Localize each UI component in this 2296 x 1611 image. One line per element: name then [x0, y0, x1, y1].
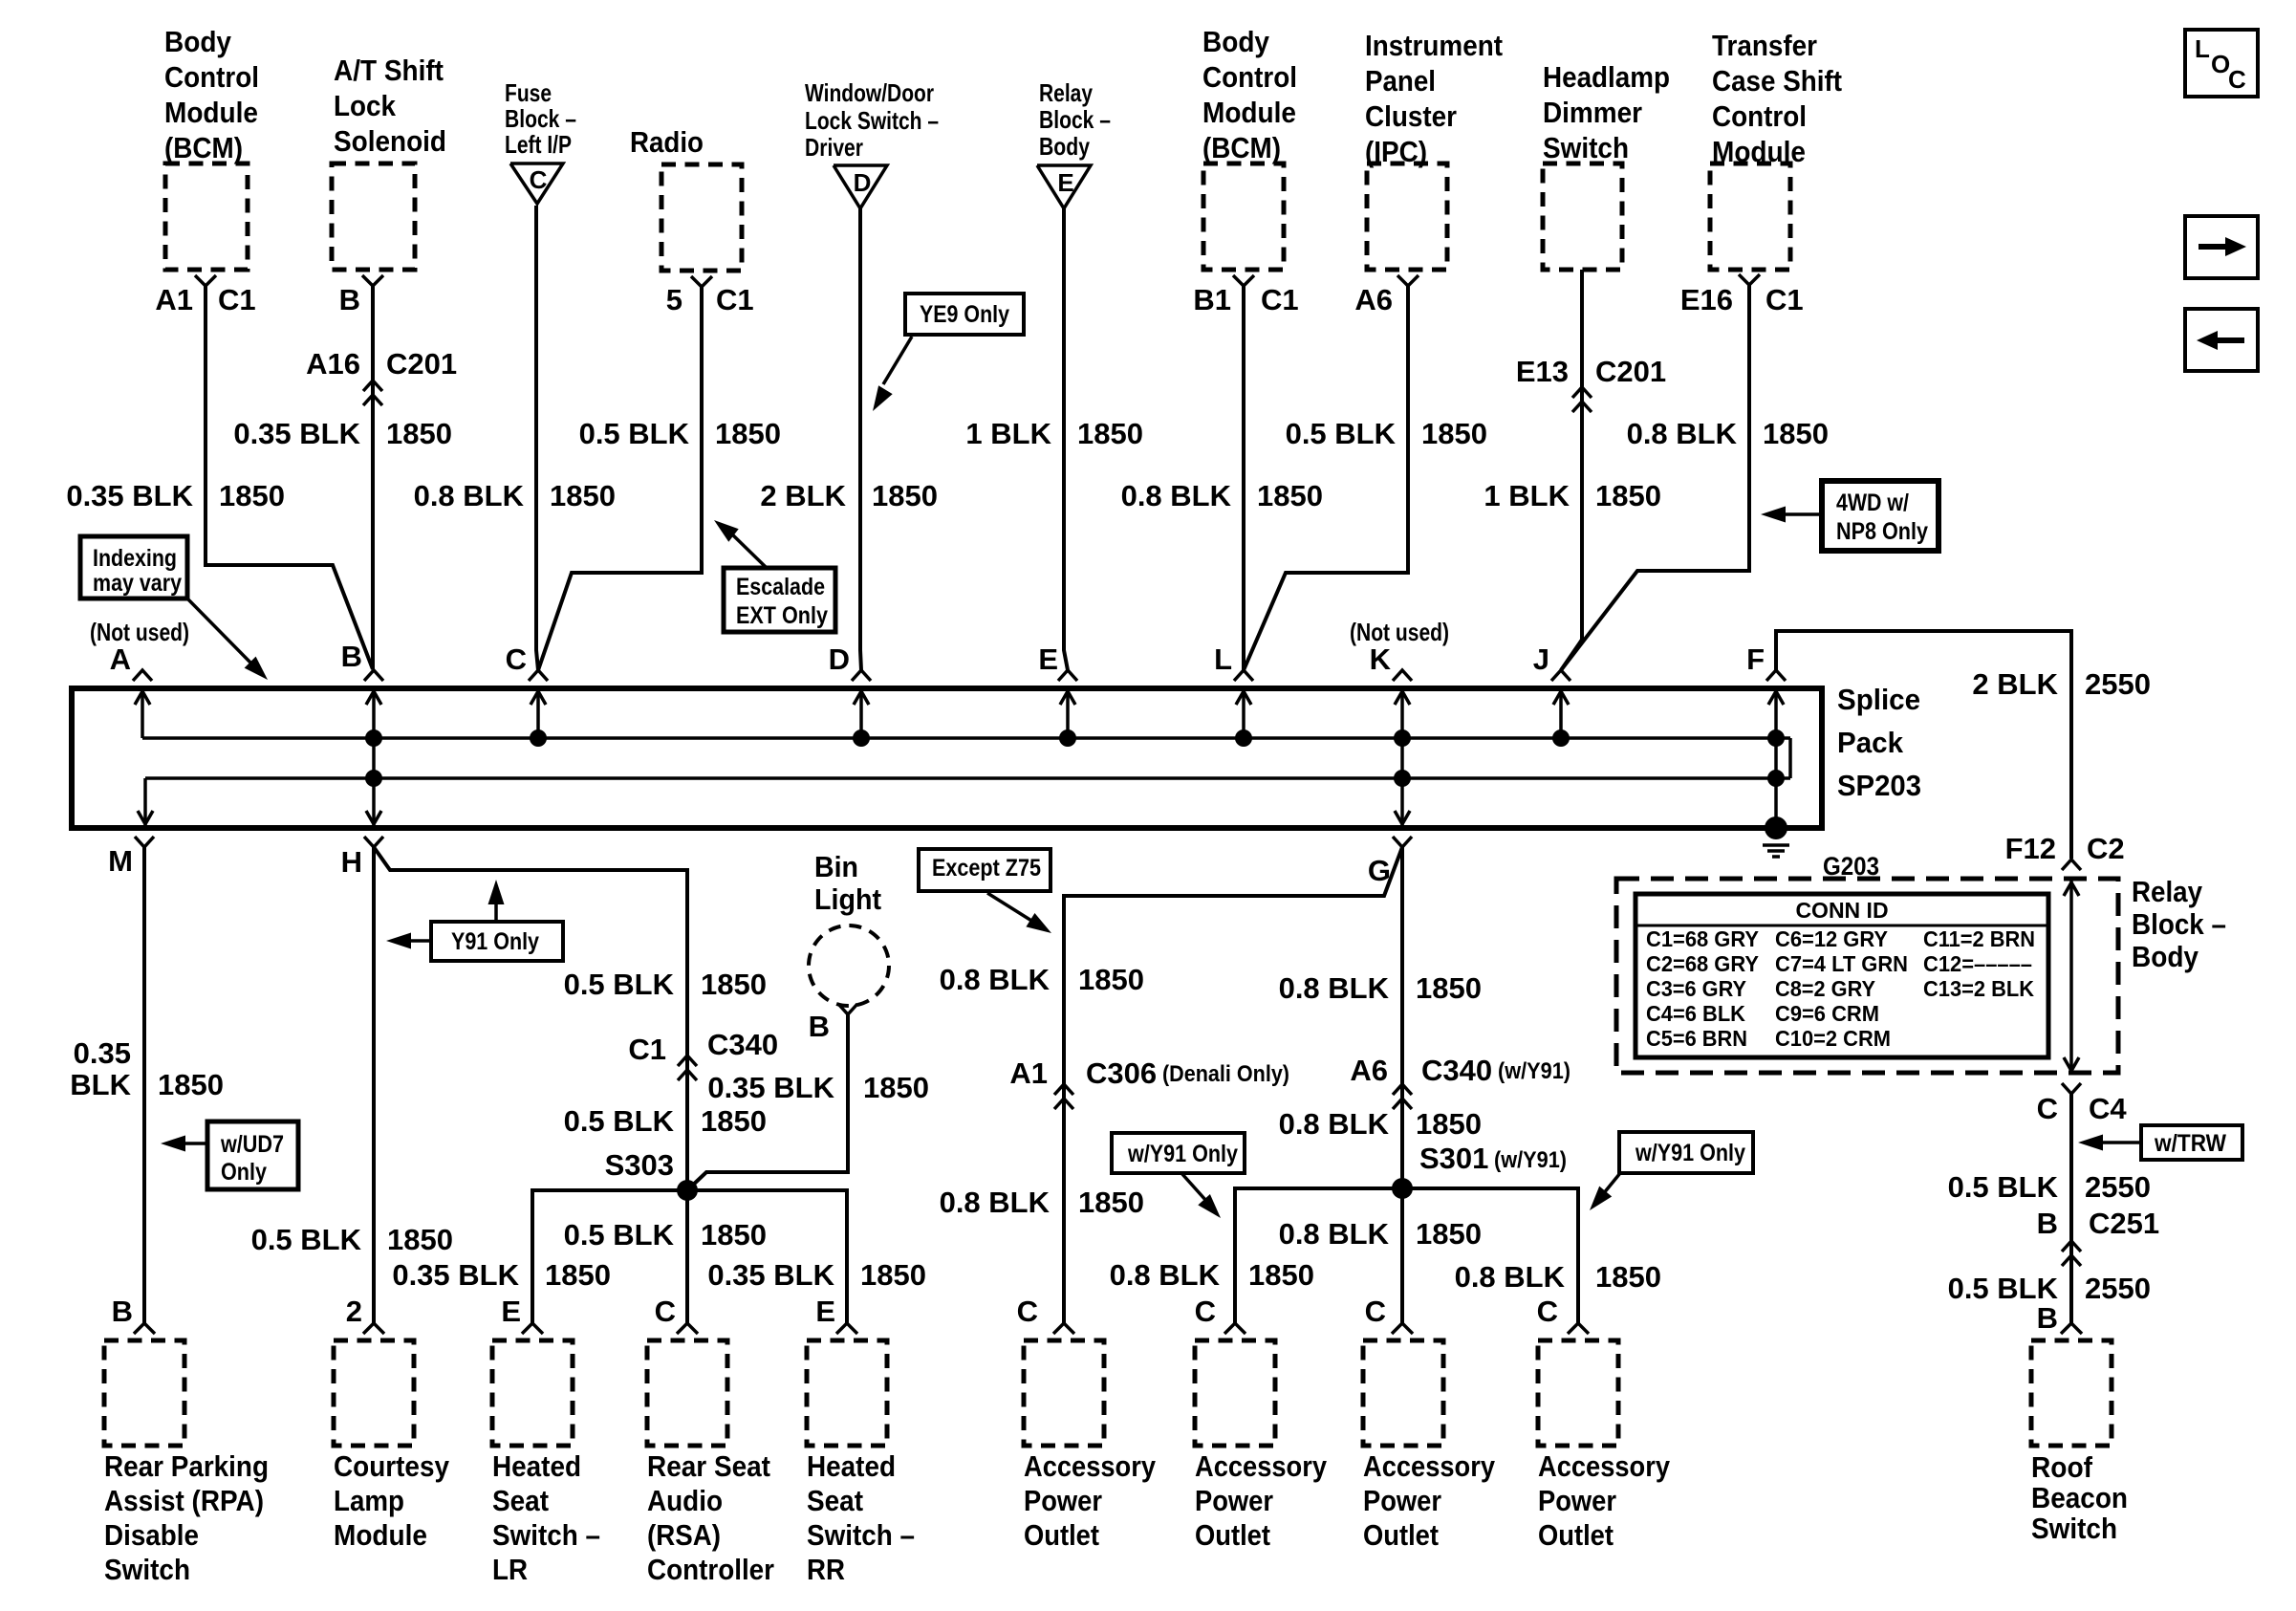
component Rear Seat Audio (RSA) Controller - dashed box	[647, 1340, 727, 1446]
svg-text:2: 2	[346, 1295, 362, 1328]
svg-text:Panel: Panel	[1365, 64, 1436, 98]
svg-text:Window/Door: Window/Door	[805, 78, 934, 107]
svg-text:0.35 BLK: 0.35 BLK	[707, 1071, 834, 1104]
svg-text:1850: 1850	[1257, 479, 1323, 512]
svg-text:Block –: Block –	[1039, 105, 1111, 134]
wire splice F to relay block (2 BLK 2550)	[1776, 631, 2071, 859]
svg-text:C13=2 BLK: C13=2 BLK	[1923, 976, 2034, 1001]
connector triangle D - Window/Door Lock Switch Driver	[834, 165, 887, 208]
splice pack bus line 2	[145, 776, 1790, 780]
component Rear Parking Assist (RPA) Disable Switch - dashed box	[104, 1340, 184, 1446]
svg-text:Escalade: Escalade	[736, 574, 825, 600]
component A/T Shift Lock Solenoid - dashed box	[332, 163, 415, 270]
svg-text:1850: 1850	[863, 1071, 929, 1104]
svg-text:C1: C1	[628, 1033, 666, 1066]
svg-text:Switch: Switch	[2031, 1512, 2117, 1545]
svg-text:Switch –: Switch –	[807, 1518, 915, 1552]
svg-text:EXT Only: EXT Only	[736, 602, 828, 629]
svg-text:Heated: Heated	[807, 1449, 896, 1483]
svg-text:Except Z75: Except Z75	[932, 855, 1041, 882]
svg-text:C8=2 GRY: C8=2 GRY	[1775, 976, 1875, 1001]
svg-text:C201: C201	[386, 347, 457, 381]
svg-text:w/Y91 Only: w/Y91 Only	[1127, 1141, 1238, 1167]
svg-text:(BCM): (BCM)	[1202, 131, 1281, 164]
svg-text:Relay: Relay	[2132, 875, 2203, 908]
svg-text:RR: RR	[807, 1553, 845, 1586]
note box w/Y91 Only left with arrow	[1112, 1133, 1245, 1173]
svg-text:0.8 BLK: 0.8 BLK	[1279, 1107, 1390, 1141]
svg-text:Solenoid: Solenoid	[334, 124, 446, 158]
svg-text:Controller: Controller	[647, 1553, 774, 1586]
svg-text:1850: 1850	[1248, 1258, 1314, 1292]
svg-text:1850: 1850	[715, 417, 781, 450]
svg-text:Block –: Block –	[505, 104, 576, 133]
svg-text:D: D	[854, 168, 872, 197]
wire A/T solenoid to splice B (0.35 BLK 1850)	[371, 286, 375, 669]
svg-text:C: C	[2037, 1092, 2058, 1125]
svg-text:Audio: Audio	[647, 1484, 723, 1517]
svg-text:0.35 BLK: 0.35 BLK	[233, 417, 360, 450]
svg-text:CONN ID: CONN ID	[1795, 898, 1888, 923]
svg-text:Y91 Only: Y91 Only	[451, 928, 539, 955]
svg-text:NP8 Only: NP8 Only	[1836, 518, 1928, 545]
svg-text:Splice: Splice	[1837, 683, 1920, 716]
wire BCM-A1 to splice B (0.35 BLK 1850)	[206, 286, 373, 669]
svg-text:Left I/P: Left I/P	[505, 130, 572, 159]
svg-text:1 BLK: 1 BLK	[965, 417, 1051, 450]
svg-text:C340: C340	[707, 1028, 778, 1061]
note box w/Y91 Only right with arrow	[1619, 1132, 1753, 1173]
svg-text:0.8 BLK: 0.8 BLK	[940, 963, 1051, 996]
wire splice G branch to outlet 1 (0.8 BLK 1850)	[1064, 847, 1402, 1323]
svg-text:1850: 1850	[1763, 417, 1829, 450]
component Radio - dashed box	[661, 164, 742, 271]
wire Fuse Block C to splice C (0.8 BLK 1850)	[536, 206, 538, 670]
svg-text:E16: E16	[1680, 283, 1733, 316]
svg-text:C1: C1	[1765, 283, 1804, 316]
svg-text:Driver: Driver	[805, 133, 863, 162]
svg-text:(Not used): (Not used)	[1350, 618, 1449, 646]
svg-text:may vary: may vary	[93, 570, 182, 597]
wire S303 left branch to Heated Seat LR (0.35 BLK 1850)	[532, 1190, 687, 1323]
splice pack bus line 1	[142, 736, 1790, 740]
svg-text:2550: 2550	[2085, 667, 2151, 701]
svg-text:Outlet: Outlet	[1024, 1518, 1099, 1552]
svg-text:Module: Module	[334, 1518, 427, 1552]
svg-text:0.5 BLK: 0.5 BLK	[1948, 1272, 2059, 1305]
svg-text:0.35 BLK: 0.35 BLK	[707, 1258, 834, 1292]
svg-text:1850: 1850	[1421, 417, 1487, 450]
svg-text:Module: Module	[1202, 96, 1296, 129]
splice pack SP203 outer box	[72, 688, 1822, 828]
legend LOC box	[2185, 30, 2258, 97]
splice terminal H exit	[364, 837, 383, 847]
svg-text:A1: A1	[1009, 1056, 1048, 1090]
svg-text:1850: 1850	[1595, 1260, 1661, 1294]
svg-text:0.5 BLK: 0.5 BLK	[1948, 1170, 2059, 1204]
svg-text:1850: 1850	[1078, 1186, 1144, 1219]
svg-text:Control: Control	[164, 60, 259, 94]
component Roof Beacon Switch - dashed box	[2031, 1340, 2112, 1446]
svg-text:Lock Switch –: Lock Switch –	[805, 106, 939, 135]
svg-text:Outlet: Outlet	[1195, 1518, 1270, 1552]
component Accessory Power Outlet 2 - dashed box	[1195, 1340, 1275, 1446]
svg-text:B: B	[2037, 1301, 2058, 1335]
svg-text:Beacon: Beacon	[2031, 1481, 2128, 1514]
svg-text:C: C	[1537, 1295, 1558, 1328]
note box 4WD w/ NP8 Only with arrow	[1822, 481, 1939, 551]
svg-text:K: K	[1370, 642, 1392, 676]
svg-text:1850: 1850	[158, 1068, 224, 1101]
svg-text:Block –: Block –	[2132, 907, 2226, 941]
splice terminal G exit	[1393, 837, 1412, 847]
wire Window/Door D to splice D (2 BLK 1850)	[860, 208, 861, 670]
svg-text:SP203: SP203	[1837, 769, 1921, 802]
svg-text:C2=68 GRY: C2=68 GRY	[1646, 951, 1759, 976]
svg-text:Disable: Disable	[104, 1518, 199, 1552]
svg-text:Relay: Relay	[1039, 78, 1093, 107]
svg-text:A6: A6	[1350, 1054, 1388, 1087]
svg-text:Roof: Roof	[2031, 1450, 2093, 1484]
wire splice H to Courtesy Lamp (0.5 BLK 1850)	[372, 847, 376, 1323]
svg-text:LR: LR	[492, 1553, 528, 1586]
pin chevron A/T solenoid	[362, 275, 383, 286]
pin chevron BCM left	[195, 275, 216, 286]
svg-text:Case Shift: Case Shift	[1712, 64, 1842, 98]
svg-text:Body: Body	[2132, 940, 2199, 973]
svg-text:Module: Module	[1712, 135, 1806, 168]
svg-text:Power: Power	[1538, 1484, 1616, 1517]
svg-text:1850: 1850	[219, 479, 285, 512]
svg-text:(BCM): (BCM)	[164, 131, 243, 164]
svg-text:0.5 BLK: 0.5 BLK	[564, 1104, 675, 1138]
svg-text:F: F	[1746, 642, 1765, 676]
svg-text:F12: F12	[2005, 832, 2056, 865]
pin chevron BCM right	[1233, 275, 1254, 286]
connector C C4 below relay block	[2062, 1083, 2081, 1094]
svg-text:C3=6 GRY: C3=6 GRY	[1646, 976, 1746, 1001]
component Transfer Case Shift Control Module - dashed box	[1710, 163, 1790, 270]
svg-text:C1: C1	[716, 283, 754, 316]
svg-text:(Not used): (Not used)	[90, 618, 189, 646]
svg-text:E: E	[501, 1295, 521, 1328]
svg-text:E: E	[1057, 168, 1073, 197]
svg-text:1850: 1850	[1416, 1107, 1482, 1141]
svg-text:Bin: Bin	[814, 850, 858, 883]
svg-text:2550: 2550	[2085, 1272, 2151, 1305]
component Heated Seat Switch RR - dashed box	[807, 1340, 887, 1446]
svg-text:5: 5	[666, 283, 682, 316]
svg-text:1850: 1850	[1416, 971, 1482, 1005]
svg-text:w/UD7: w/UD7	[220, 1131, 284, 1158]
svg-text:0.8 BLK: 0.8 BLK	[1279, 1217, 1390, 1251]
svg-text:Headlamp: Headlamp	[1543, 60, 1670, 94]
svg-text:1850: 1850	[550, 479, 616, 512]
svg-text:Rear Parking: Rear Parking	[104, 1449, 269, 1483]
wire splice H branch to S303 (0.5 BLK 1850)	[374, 847, 687, 1190]
svg-text:Assist (RPA): Assist (RPA)	[104, 1484, 264, 1517]
svg-text:A1: A1	[155, 283, 193, 316]
svg-text:Module: Module	[164, 96, 258, 129]
svg-text:Power: Power	[1195, 1484, 1273, 1517]
svg-text:C4=6 BLK: C4=6 BLK	[1646, 1001, 1745, 1026]
svg-text:Outlet: Outlet	[1538, 1518, 1614, 1552]
svg-text:Radio: Radio	[630, 125, 704, 159]
svg-text:2 BLK: 2 BLK	[1972, 667, 2058, 701]
svg-text:C1: C1	[1261, 283, 1299, 316]
svg-text:S303: S303	[605, 1148, 674, 1182]
svg-text:0.8 BLK: 0.8 BLK	[1627, 417, 1738, 450]
wire S303 right branch to Heated Seat RR (0.35 BLK 1850)	[687, 1190, 847, 1323]
svg-text:B: B	[2037, 1207, 2058, 1240]
svg-text:C: C	[506, 642, 527, 676]
wire S301 down to outlet 3 (0.8 BLK 1850)	[1400, 1188, 1404, 1323]
note box w/TRW with arrow	[2141, 1125, 2242, 1160]
wire IPC-A6 to splice L (0.5 BLK 1850)	[1244, 286, 1408, 670]
note box YE9 Only with arrow to wire D	[905, 294, 1024, 335]
svg-text:BLK: BLK	[70, 1068, 131, 1101]
wire Relay Block E to splice E (1 BLK 1850)	[1064, 208, 1068, 670]
svg-text:M: M	[108, 844, 133, 878]
svg-text:Seat: Seat	[492, 1484, 549, 1517]
svg-text:S301: S301	[1419, 1142, 1488, 1175]
note box Y91 Only with arrows	[431, 922, 563, 961]
svg-text:Body: Body	[1039, 132, 1090, 161]
svg-text:0.5 BLK: 0.5 BLK	[564, 968, 675, 1001]
svg-text:0.8 BLK: 0.8 BLK	[1455, 1260, 1566, 1294]
svg-text:Switch –: Switch –	[492, 1518, 600, 1552]
svg-text:C201: C201	[1595, 355, 1666, 388]
svg-text:C: C	[1195, 1295, 1216, 1328]
svg-text:2550: 2550	[2085, 1170, 2151, 1204]
svg-text:Accessory: Accessory	[1363, 1449, 1496, 1483]
svg-text:0.8 BLK: 0.8 BLK	[414, 479, 525, 512]
svg-text:1850: 1850	[701, 1218, 767, 1252]
note box Indexing may vary with arrow to splice pack	[80, 536, 187, 599]
svg-text:1850: 1850	[701, 1104, 767, 1138]
pin chevron Transfer Case module	[1739, 274, 1760, 285]
wire splice M to RPA switch (0.35 BLK 1850)	[142, 847, 146, 1323]
pin chevron IPC	[1397, 275, 1419, 286]
svg-text:Switch: Switch	[1543, 131, 1629, 164]
svg-text:C1: C1	[218, 283, 256, 316]
wire Transfer Case to splice J (0.8 BLK 1850)	[1561, 285, 1749, 670]
svg-text:(IPC): (IPC)	[1365, 135, 1427, 168]
svg-text:Power: Power	[1024, 1484, 1102, 1517]
component Body Control Module (BCM) right - dashed box	[1203, 163, 1284, 270]
svg-text:B: B	[341, 640, 362, 673]
wire BCM-B1 to splice L (0.8 BLK 1850)	[1242, 286, 1245, 670]
component Courtesy Lamp Module - dashed box	[334, 1340, 414, 1446]
svg-text:Rear Seat: Rear Seat	[647, 1449, 770, 1483]
svg-text:w/Y91 Only: w/Y91 Only	[1635, 1140, 1745, 1166]
svg-text:Outlet: Outlet	[1363, 1518, 1439, 1552]
wire S303 down to RSA controller (0.5 BLK 1850)	[685, 1190, 689, 1323]
svg-text:Accessory: Accessory	[1024, 1449, 1157, 1483]
svg-text:Control: Control	[1712, 99, 1807, 133]
relay block body - dashed box	[1616, 879, 2118, 1073]
splice pack bus right elbow	[1788, 738, 1792, 778]
svg-text:C340: C340	[1421, 1054, 1492, 1087]
svg-text:C4: C4	[2089, 1092, 2127, 1125]
svg-text:J: J	[1533, 642, 1549, 676]
svg-text:C6=12 GRY: C6=12 GRY	[1775, 926, 1888, 951]
svg-text:Seat: Seat	[807, 1484, 863, 1517]
svg-text:E: E	[815, 1295, 835, 1328]
svg-text:1850: 1850	[872, 479, 938, 512]
component Accessory Power Outlet 4 - dashed box	[1538, 1340, 1618, 1446]
component Instrument Panel Cluster (IPC) - dashed box	[1367, 163, 1447, 270]
svg-text:C251: C251	[2089, 1207, 2159, 1240]
note box Escalade EXT Only with arrow to radio wire	[724, 568, 835, 632]
svg-text:B: B	[809, 1010, 830, 1043]
svg-text:Only: Only	[221, 1159, 267, 1186]
svg-text:C: C	[655, 1295, 676, 1328]
svg-text:B: B	[112, 1295, 133, 1328]
svg-text:1850: 1850	[1077, 417, 1143, 450]
wire S301 left branch to outlet 2 (0.8 BLK 1850)	[1235, 1188, 1402, 1323]
pin chevron Radio	[691, 276, 712, 287]
svg-text:Accessory: Accessory	[1538, 1449, 1671, 1483]
component Headlamp Dimmer Switch - dashed box	[1543, 163, 1622, 270]
svg-text:A/T Shift: A/T Shift	[334, 54, 444, 87]
svg-text:1850: 1850	[1078, 963, 1144, 996]
svg-text:C11=2 BRN: C11=2 BRN	[1923, 926, 2035, 951]
svg-text:Cluster: Cluster	[1365, 99, 1457, 133]
svg-text:Pack: Pack	[1837, 726, 1904, 759]
svg-text:E13: E13	[1516, 355, 1569, 388]
svg-text:0.5 BLK: 0.5 BLK	[579, 417, 690, 450]
svg-text:1850: 1850	[1416, 1217, 1482, 1251]
svg-text:Transfer: Transfer	[1712, 29, 1817, 62]
component Body Control Module (BCM) left - dashed box	[165, 163, 248, 270]
svg-text:A6: A6	[1354, 283, 1393, 316]
svg-text:(w/Y91): (w/Y91)	[1494, 1147, 1567, 1173]
svg-text:Body: Body	[164, 25, 232, 58]
svg-text:Indexing: Indexing	[93, 545, 177, 572]
legend backward arrow box	[2185, 309, 2258, 371]
svg-text:Power: Power	[1363, 1484, 1441, 1517]
svg-text:0.8 BLK: 0.8 BLK	[1279, 971, 1390, 1005]
splice terminal M exit	[143, 778, 147, 826]
svg-text:Lock: Lock	[334, 89, 397, 122]
svg-text:0.8 BLK: 0.8 BLK	[940, 1186, 1051, 1219]
svg-text:4WD w/: 4WD w/	[1836, 490, 1909, 516]
svg-text:H: H	[341, 845, 362, 879]
wire splice G to S301 (0.8 BLK 1850)	[1400, 847, 1404, 1188]
svg-text:Light: Light	[814, 882, 881, 916]
wire Radio to splice C (0.5 BLK 1850)	[538, 287, 702, 670]
component Bin Light - dashed circle	[809, 925, 889, 1006]
svg-text:Switch: Switch	[104, 1553, 190, 1586]
component Accessory Power Outlet 3 - dashed box	[1363, 1340, 1443, 1446]
svg-text:0.8 BLK: 0.8 BLK	[1110, 1258, 1221, 1292]
wire through relay block	[2069, 881, 2073, 1073]
svg-text:1850: 1850	[1595, 479, 1661, 512]
svg-text:Control: Control	[1202, 60, 1297, 94]
svg-text:B1: B1	[1193, 283, 1231, 316]
svg-text:1850: 1850	[701, 968, 767, 1001]
svg-text:1850: 1850	[860, 1258, 926, 1292]
svg-text:B: B	[339, 283, 360, 316]
svg-text:1850: 1850	[387, 1223, 453, 1256]
pin chevron and label B bin light	[838, 1004, 857, 1014]
svg-text:C1=68 GRY: C1=68 GRY	[1646, 926, 1759, 951]
svg-text:C12=–––––: C12=–––––	[1923, 951, 2032, 976]
svg-text:Heated: Heated	[492, 1449, 581, 1483]
component Heated Seat Switch LR - dashed box	[492, 1340, 573, 1446]
svg-text:Body: Body	[1202, 25, 1270, 58]
svg-text:Fuse: Fuse	[505, 78, 552, 107]
svg-text:A16: A16	[306, 347, 360, 381]
svg-text:(w/Y91): (w/Y91)	[1498, 1058, 1570, 1084]
svg-text:0.5 BLK: 0.5 BLK	[564, 1218, 675, 1252]
wire Headlamp Dimmer to splice J (1 BLK 1850)	[1561, 270, 1582, 670]
svg-text:(RSA): (RSA)	[647, 1518, 721, 1552]
svg-text:0.35: 0.35	[74, 1036, 131, 1070]
note box Except Z75 with arrow	[919, 849, 1051, 891]
connector triangle E - Relay Block Body	[1037, 165, 1091, 208]
wire relay block to roof beacon (0.5 BLK 2550)	[2069, 1094, 2073, 1323]
svg-text:0.5 BLK: 0.5 BLK	[251, 1223, 362, 1256]
svg-text:0.8 BLK: 0.8 BLK	[1121, 479, 1232, 512]
svg-text:Accessory: Accessory	[1195, 1449, 1328, 1483]
svg-text:0.35 BLK: 0.35 BLK	[66, 479, 193, 512]
svg-text:1850: 1850	[545, 1258, 611, 1292]
wire bin light to S303 (0.35 BLK 1850)	[689, 1014, 848, 1188]
svg-text:C: C	[2228, 65, 2246, 94]
svg-text:C10=2 CRM: C10=2 CRM	[1775, 1026, 1891, 1051]
svg-text:L: L	[1214, 642, 1232, 676]
svg-text:C: C	[1365, 1295, 1386, 1328]
note box w/UD7 Only with arrow	[207, 1121, 298, 1189]
legend forward arrow box	[2185, 216, 2258, 278]
svg-text:0.5 BLK: 0.5 BLK	[1286, 417, 1397, 450]
svg-text:Courtesy: Courtesy	[334, 1449, 450, 1483]
svg-text:0.35 BLK: 0.35 BLK	[392, 1258, 519, 1292]
svg-text:Instrument: Instrument	[1365, 29, 1503, 62]
svg-text:YE9 Only: YE9 Only	[920, 301, 1009, 328]
svg-text:Dimmer: Dimmer	[1543, 96, 1642, 129]
svg-text:C: C	[530, 165, 548, 194]
svg-text:1 BLK: 1 BLK	[1484, 479, 1570, 512]
svg-text:C7=4 LT GRN: C7=4 LT GRN	[1775, 951, 1908, 976]
wire S301 right branch to outlet 4 (0.8 BLK 1850)	[1402, 1188, 1578, 1323]
CONN ID table	[1635, 894, 2048, 1057]
svg-text:C9=6 CRM: C9=6 CRM	[1775, 1001, 1879, 1026]
svg-text:2 BLK: 2 BLK	[760, 479, 846, 512]
svg-text:(Denali Only): (Denali Only)	[1162, 1061, 1289, 1087]
svg-text:L: L	[2195, 34, 2210, 63]
svg-text:D: D	[829, 642, 850, 676]
svg-text:w/TRW: w/TRW	[2154, 1130, 2226, 1157]
svg-text:A: A	[110, 642, 131, 676]
svg-text:E: E	[1038, 642, 1058, 676]
ground G203 junction dot and symbol	[1765, 816, 1787, 839]
svg-text:Lamp: Lamp	[334, 1484, 404, 1517]
svg-text:C306: C306	[1086, 1056, 1157, 1090]
svg-text:C: C	[1017, 1295, 1038, 1328]
svg-text:C2: C2	[2087, 832, 2125, 865]
svg-text:C5=6 BRN: C5=6 BRN	[1646, 1026, 1747, 1051]
component Accessory Power Outlet 1 - dashed box	[1024, 1340, 1104, 1446]
svg-text:1850: 1850	[386, 417, 452, 450]
connector triangle C - Fuse Block Left I/P	[510, 163, 563, 204]
